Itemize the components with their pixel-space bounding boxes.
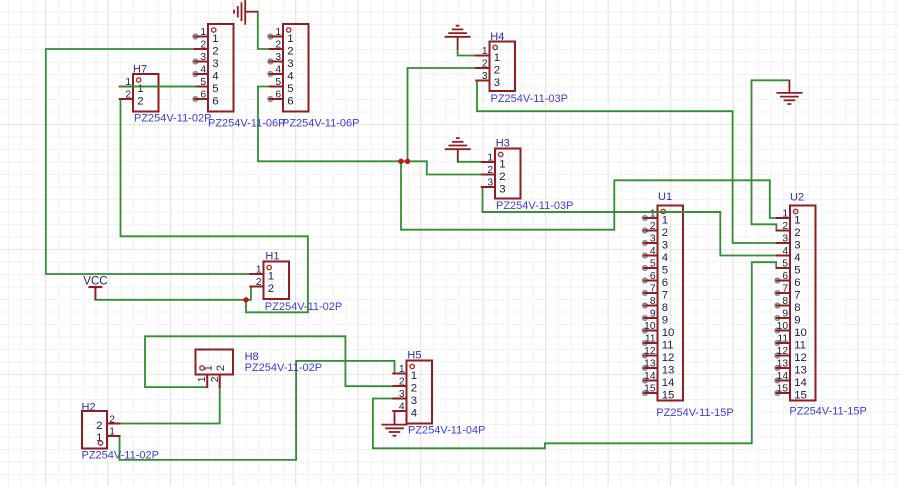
U2 body outline (790, 206, 816, 401)
connector H8 (PZ254V-11-02P), rotated 90 (196, 350, 323, 388)
svg-text:2: 2 (210, 376, 221, 382)
H8 pin 1 (197, 365, 215, 387)
svg-text:4: 4 (794, 252, 800, 264)
connector H4 (PZ254V-11-03P) (476, 31, 568, 105)
svg-text:15: 15 (644, 383, 656, 394)
svg-text:2: 2 (411, 382, 417, 394)
svg-text:10: 10 (644, 321, 656, 332)
svg-text:1: 1 (794, 214, 800, 226)
svg-text:1: 1 (137, 83, 143, 95)
H5 body outline (407, 361, 433, 424)
H2 pin 1 (96, 426, 119, 444)
svg-text:1: 1 (650, 208, 656, 219)
svg-text:5: 5 (662, 264, 668, 276)
svg-text:3: 3 (499, 183, 505, 195)
PZ254V-11-06P pin 2 (195, 39, 219, 57)
power flag VCC (88, 287, 102, 300)
svg-text:6: 6 (782, 271, 788, 282)
ground GND4 (top right) (776, 80, 802, 104)
PZ254V-11-06P pin 5 (270, 77, 294, 95)
U1 pin 12 (643, 346, 675, 364)
svg-text:5: 5 (287, 83, 293, 95)
svg-text:11: 11 (777, 333, 788, 344)
svg-text:2: 2 (494, 64, 500, 76)
U1 pin 13 (643, 358, 675, 376)
svg-text:14: 14 (644, 371, 656, 382)
svg-text:9: 9 (650, 308, 656, 319)
svg-text:7: 7 (794, 289, 800, 301)
svg-text:5: 5 (275, 77, 281, 88)
H4 pin 1 (476, 46, 500, 64)
svg-text:1: 1 (268, 270, 274, 282)
svg-text:3: 3 (482, 71, 488, 82)
wire net GND2 to H4.1 (458, 49, 477, 55)
svg-text:H3: H3 (496, 138, 510, 150)
wire net VCC rail to H1.2 (95, 287, 251, 300)
svg-text:2: 2 (482, 58, 488, 69)
H4 pin 2 (476, 58, 500, 76)
H8 body outline (196, 350, 234, 375)
svg-text:10: 10 (777, 321, 789, 332)
wire net N$5 H3.3 to U2.4 (483, 187, 778, 256)
svg-text:8: 8 (794, 302, 800, 314)
U1 pin 10 (643, 321, 675, 339)
svg-text:8: 8 (662, 302, 668, 314)
svg-text:14: 14 (777, 371, 789, 382)
svg-text:12: 12 (644, 346, 656, 357)
H5 pin 1 (393, 364, 417, 382)
svg-text:1: 1 (275, 27, 281, 38)
svg-text:4: 4 (411, 407, 417, 419)
U1 pin 15 (643, 383, 675, 401)
U2 pin 5 (777, 258, 801, 276)
svg-text:1: 1 (212, 33, 218, 45)
svg-text:VCC: VCC (83, 276, 107, 288)
connector H3 (PZ254V-11-03P) (482, 138, 574, 213)
svg-text:2: 2 (275, 39, 281, 50)
H8 pin-1 indicator (200, 366, 204, 370)
svg-text:14: 14 (794, 377, 807, 389)
svg-text:12: 12 (794, 352, 807, 364)
PZ254V-11-06P pin-1 indicator (212, 28, 216, 32)
H7 body outline (133, 74, 159, 112)
H5 pin 2 (393, 376, 417, 394)
svg-text:3: 3 (275, 52, 281, 63)
junction dot net VCC (243, 297, 248, 302)
svg-text:6: 6 (287, 95, 293, 107)
H7 pin 1 (120, 77, 144, 95)
svg-text:10: 10 (662, 327, 675, 339)
H2 body outline (82, 411, 107, 449)
svg-text:1: 1 (287, 33, 293, 45)
wire net N$5 overlay across U1 (483, 211, 721, 213)
svg-text:7: 7 (782, 283, 788, 294)
svg-text:2: 2 (96, 420, 102, 432)
H3 body outline (495, 149, 521, 199)
wire net N$3 box2.5 to H3.2 (258, 87, 483, 175)
svg-text:3: 3 (411, 395, 417, 407)
svg-text:2: 2 (662, 227, 668, 239)
svg-text:1: 1 (499, 158, 505, 170)
svg-text:2: 2 (499, 171, 505, 183)
U2 pin-1 indicator (794, 209, 798, 213)
PZ254V-11-06P pin 4 (193, 64, 218, 82)
svg-text:1: 1 (782, 208, 788, 219)
svg-text:2: 2 (268, 283, 274, 295)
ground GND1 (top center, rotated) (234, 0, 258, 25)
U1 pin 3 (643, 233, 668, 251)
svg-text:2: 2 (137, 95, 143, 107)
svg-text:2: 2 (487, 165, 493, 176)
svg-text:1: 1 (411, 370, 417, 382)
PZ254V-11-06P pin 5 (195, 77, 219, 95)
svg-text:4: 4 (212, 70, 218, 82)
H3 pin 1 (482, 152, 506, 170)
PZ254V-11-06P body outline (283, 24, 309, 112)
svg-text:6: 6 (662, 277, 668, 289)
U1 pin 1 (643, 208, 668, 226)
svg-text:1: 1 (200, 27, 206, 38)
svg-text:3: 3 (399, 389, 405, 400)
svg-text:13: 13 (777, 358, 789, 369)
U2 pin 11 (775, 333, 806, 351)
svg-text:3: 3 (487, 177, 493, 188)
svg-text:8: 8 (782, 296, 788, 307)
svg-text:13: 13 (644, 358, 656, 369)
svg-text:11: 11 (662, 339, 674, 351)
ground GND5 (at H5 pin4) (382, 412, 408, 436)
U2 pin 13 (775, 358, 807, 376)
svg-text:6: 6 (794, 277, 800, 289)
svg-text:1: 1 (487, 152, 493, 163)
svg-text:PZ254V-11-06P: PZ254V-11-06P (208, 118, 285, 130)
wire net N$9 H2.1 to H5.1 (120, 361, 395, 460)
svg-text:2: 2 (215, 365, 227, 371)
svg-text:4: 4 (662, 252, 668, 264)
svg-text:5: 5 (794, 264, 800, 276)
U2 pin 4 (777, 246, 801, 264)
svg-text:5: 5 (212, 83, 218, 95)
svg-text:PZ254V-11-03P: PZ254V-11-03P (496, 200, 573, 212)
H7 pin-1 indicator (137, 78, 141, 82)
H1 pin 2 (250, 277, 274, 295)
svg-text:PZ254V-11-02P: PZ254V-11-02P (265, 301, 342, 313)
svg-text:H1: H1 (265, 251, 279, 263)
wire net N$1 segment box1.2 to H1.1 (46, 49, 251, 274)
PZ254V-11-06P body outline (208, 24, 234, 112)
svg-text:U1: U1 (658, 191, 672, 203)
H2 pin 2 (96, 414, 119, 432)
H3 pin-1 indicator (499, 152, 503, 156)
svg-text:15: 15 (777, 383, 789, 394)
PZ254V-11-06P pin 6 (268, 89, 293, 107)
svg-text:4: 4 (399, 401, 405, 412)
wire net VCC branch to H7.2 (121, 99, 308, 312)
connector J2 (PZ254V-11-06P) (268, 24, 359, 130)
U2 pin 10 (775, 321, 807, 339)
svg-text:13: 13 (794, 364, 807, 376)
svg-text:4: 4 (275, 64, 281, 75)
PZ254V-11-06P pin 3 (268, 52, 293, 70)
svg-text:PZ254V-11-02P: PZ254V-11-02P (245, 362, 322, 374)
svg-text:2: 2 (287, 45, 293, 57)
wire net GND4 to U2.2 (752, 80, 790, 230)
svg-text:7: 7 (650, 283, 656, 294)
H8 pin 2 (210, 365, 227, 387)
svg-text:5: 5 (782, 258, 788, 269)
svg-text:H4: H4 (490, 31, 504, 43)
U1 pin 5 (643, 258, 668, 276)
connector H2 (PZ254V-11-02P), mirrored (82, 402, 159, 462)
svg-text:3: 3 (287, 58, 293, 70)
svg-text:PZ254V-11-02P: PZ254V-11-02P (134, 113, 211, 125)
U1 pin 9 (643, 308, 668, 326)
wire net N$8 H8.2 to H2.2 (120, 387, 220, 423)
svg-text:11: 11 (794, 339, 806, 351)
svg-text:3: 3 (782, 233, 788, 244)
U1 pin-1 indicator (661, 209, 665, 213)
svg-text:9: 9 (794, 314, 800, 326)
svg-text:1: 1 (399, 364, 405, 375)
wire net N$7 H8.1 to H5.2 (145, 336, 394, 387)
connector H7 (PZ254V-11-02P) (120, 64, 212, 125)
connector U1 (PZ254V-11-15P) (643, 191, 734, 419)
svg-text:3: 3 (212, 58, 218, 70)
U2 pin 1 (777, 208, 801, 226)
svg-text:15: 15 (662, 389, 675, 401)
H7 pin 2 (120, 89, 144, 107)
U1 pin 11 (643, 333, 674, 351)
H3 pin 3 (482, 177, 506, 195)
svg-text:PZ254V-11-15P: PZ254V-11-15P (789, 406, 866, 418)
svg-text:1: 1 (197, 376, 208, 382)
U1 pin 7 (643, 283, 668, 301)
U2 pin 3 (777, 233, 801, 251)
svg-text:2: 2 (782, 221, 788, 232)
U2 pin 8 (775, 296, 800, 314)
svg-text:12: 12 (662, 352, 675, 364)
svg-text:2: 2 (109, 414, 115, 425)
svg-text:1: 1 (96, 432, 102, 444)
junction dot net N$3 down-branch (398, 159, 403, 164)
wire net N$3 branch to H4.2 (408, 68, 478, 161)
U2 pin 6 (775, 271, 800, 289)
H1 pin-1 indicator (267, 265, 271, 269)
svg-text:14: 14 (662, 377, 675, 389)
svg-text:9: 9 (662, 314, 668, 326)
svg-text:6: 6 (275, 89, 281, 100)
connector H1 (PZ254V-11-02P) (250, 251, 342, 314)
wire net N$6 H5.3 to U2.5 (373, 262, 778, 448)
H5 pin-1 indicator (410, 364, 414, 368)
svg-text:3: 3 (494, 77, 500, 89)
connector J1 (PZ254V-11-06P) (193, 24, 285, 130)
svg-text:4: 4 (287, 70, 293, 82)
svg-text:7: 7 (662, 289, 668, 301)
wire net N$2 overlay across H7 (121, 86, 196, 88)
U1 pin 14 (643, 371, 675, 389)
U1 pin 6 (643, 271, 668, 289)
PZ254V-11-06P pin 6 (193, 89, 218, 107)
svg-text:4: 4 (782, 246, 788, 257)
svg-text:15: 15 (794, 389, 807, 401)
svg-text:3: 3 (794, 239, 800, 251)
svg-text:4: 4 (650, 246, 656, 257)
U2 pin 2 (777, 221, 801, 239)
svg-text:H7: H7 (133, 64, 147, 76)
PZ254V-11-06P pin 2 (270, 39, 294, 57)
svg-text:11: 11 (645, 333, 656, 344)
svg-text:3: 3 (662, 239, 668, 251)
svg-text:2: 2 (399, 376, 405, 387)
svg-text:4: 4 (200, 64, 206, 75)
H5 pin 4 (393, 401, 417, 419)
svg-text:3: 3 (650, 233, 656, 244)
svg-text:2: 2 (125, 89, 131, 100)
U1 pin 2 (643, 221, 668, 239)
svg-text:1: 1 (494, 52, 500, 64)
U2 pin 15 (775, 383, 807, 401)
H5 pin 3 (393, 389, 417, 407)
svg-text:H5: H5 (407, 350, 421, 362)
svg-text:2: 2 (200, 39, 206, 50)
svg-text:1: 1 (256, 264, 262, 275)
wire net N$2 H7.1 to box1.5 (121, 86, 196, 88)
svg-text:2: 2 (212, 45, 218, 57)
PZ254V-11-06P pin 1 (193, 27, 218, 45)
wire net GND1 to box2.2 (258, 12, 271, 49)
PZ254V-11-06P pin-1 indicator (287, 28, 291, 32)
PZ254V-11-06P pin 4 (268, 64, 293, 82)
svg-text:8: 8 (650, 296, 656, 307)
svg-text:5: 5 (650, 258, 656, 269)
ground GND2 (at H4 pin1) (445, 26, 471, 50)
svg-text:9: 9 (782, 308, 788, 319)
connector H5 (PZ254V-11-04P) (393, 350, 485, 437)
svg-text:2: 2 (794, 227, 800, 239)
svg-text:2: 2 (650, 221, 656, 232)
svg-text:5: 5 (200, 77, 206, 88)
H3 pin 2 (482, 165, 506, 183)
U2 pin 14 (775, 371, 807, 389)
wire net GND3 to H3.1 (458, 161, 483, 163)
U2 pin 7 (775, 283, 800, 301)
svg-text:1: 1 (482, 46, 488, 57)
U2 pin 12 (775, 346, 807, 364)
PZ254V-11-06P pin 3 (193, 52, 218, 70)
svg-text:12: 12 (777, 346, 789, 357)
H4 body outline (490, 42, 516, 92)
PZ254V-11-06P pin 1 (268, 27, 293, 45)
svg-text:13: 13 (662, 364, 675, 376)
svg-text:U2: U2 (790, 192, 804, 204)
H4 pin-1 indicator (493, 45, 497, 49)
wire net N$3 branch to U2.1 (401, 161, 778, 229)
svg-text:6: 6 (200, 89, 206, 100)
H1 body outline (264, 262, 290, 300)
U1 body outline (658, 206, 684, 401)
svg-text:3: 3 (200, 52, 206, 63)
H4 pin 3 (476, 71, 500, 89)
svg-text:1: 1 (662, 214, 668, 226)
svg-text:PZ254V-11-15P: PZ254V-11-15P (656, 407, 733, 419)
svg-text:PZ254V-11-03P: PZ254V-11-03P (491, 93, 568, 105)
junction dot net N$3 up-branch (405, 159, 410, 164)
connector U2 (PZ254V-11-15P) (775, 192, 867, 418)
U1 pin 4 (643, 246, 668, 264)
svg-text:2: 2 (256, 277, 262, 288)
svg-text:PZ254V-11-06P: PZ254V-11-06P (282, 118, 359, 130)
svg-text:10: 10 (794, 327, 807, 339)
svg-text:6: 6 (212, 95, 218, 107)
U2 pin 9 (775, 308, 800, 326)
svg-text:6: 6 (650, 271, 656, 282)
wire net N$4 H4.3 to U2.3 (477, 81, 778, 244)
ground GND3 (at H3 pin1) (445, 138, 471, 162)
svg-text:PZ254V-11-04P: PZ254V-11-04P (408, 425, 485, 437)
svg-text:H2: H2 (82, 402, 96, 414)
svg-text:1: 1 (109, 426, 115, 437)
H1 pin 1 (250, 264, 274, 282)
U1 pin 8 (643, 296, 668, 314)
svg-text:PZ254V-11-02P: PZ254V-11-02P (82, 449, 159, 461)
H2 pin-1 indicator (98, 441, 102, 445)
